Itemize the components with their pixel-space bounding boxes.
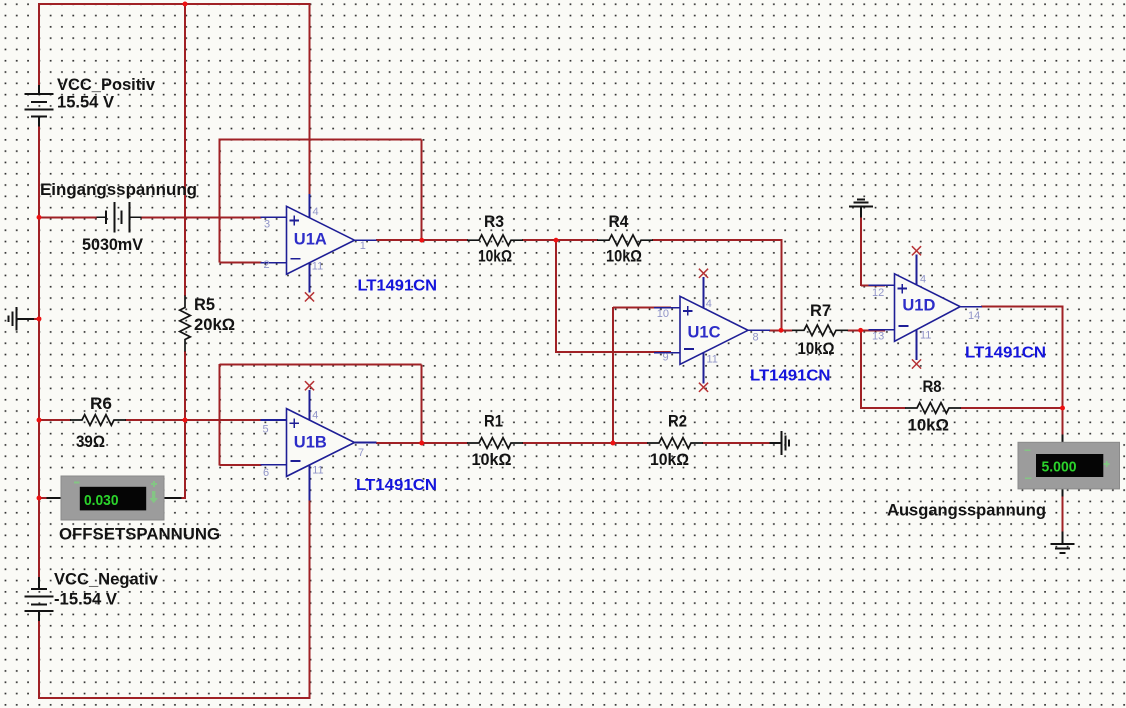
resistor R2 <box>647 412 703 469</box>
svg-text:15.54 V: 15.54 V <box>57 93 115 112</box>
svg-text:U1B: U1B <box>294 434 327 452</box>
svg-text:6: 6 <box>263 467 269 479</box>
svg-text:11: 11 <box>707 354 718 366</box>
svg-text:R5: R5 <box>194 295 215 314</box>
wire U1B pin11 to bottom rail <box>309 500 311 699</box>
op-amp U1C <box>654 277 770 383</box>
svg-text:U1D: U1D <box>902 297 935 315</box>
resistor R3 <box>467 212 523 266</box>
battery Eingangsspannung V2 <box>40 180 197 254</box>
wire U1A output row <box>376 239 468 241</box>
wire U1A loop top <box>220 138 422 140</box>
wire U1A loop right <box>421 139 423 240</box>
svg-text:R4: R4 <box>609 212 629 231</box>
voltmeter Ausgangsspannung display <box>1018 435 1120 497</box>
ground top right stem <box>860 206 862 217</box>
no-connect X at U1D pin 11 <box>912 359 921 368</box>
svg-text:20kΩ: 20kΩ <box>194 315 235 334</box>
wire ground stub row <box>33 318 40 320</box>
battery VCC_Negativ V3 <box>24 570 158 622</box>
svg-text:U1C: U1C <box>688 324 721 342</box>
op-amp U1D <box>869 255 983 361</box>
svg-text:1: 1 <box>360 240 366 252</box>
svg-text:7: 7 <box>358 447 364 459</box>
wire bottom rail <box>38 697 310 699</box>
ground output stem <box>1062 532 1064 544</box>
wire left rail lower <box>38 621 40 699</box>
wire U1B loop to minus pin <box>220 464 262 466</box>
ground top right (inverted) <box>849 199 873 206</box>
svg-text:4: 4 <box>920 274 926 286</box>
svg-text:10kΩ: 10kΩ <box>472 450 512 469</box>
wire R2 to ground <box>702 442 771 444</box>
wire top ground drop <box>860 216 862 286</box>
resistor R5 <box>180 295 235 352</box>
resistor R6 <box>70 394 126 451</box>
svg-text:Ausgangsspannung: Ausgangsspannung <box>887 501 1046 520</box>
wire R8 row left <box>860 407 905 409</box>
svg-text:2: 2 <box>264 259 270 271</box>
svg-text:R7: R7 <box>810 301 831 320</box>
wire node down to R8 row <box>860 330 862 409</box>
resistor R4 <box>597 212 653 266</box>
svg-text:10kΩ: 10kΩ <box>606 247 642 266</box>
svg-text:5: 5 <box>263 424 269 436</box>
svg-text:4: 4 <box>706 298 712 310</box>
ground R2 stub <box>770 442 782 444</box>
svg-text:14: 14 <box>968 310 980 322</box>
svg-text:5030mV: 5030mV <box>82 235 144 254</box>
svg-text:R1: R1 <box>484 412 503 431</box>
svg-text:R8: R8 <box>923 377 942 396</box>
svg-text:10kΩ: 10kΩ <box>650 450 689 469</box>
svg-text:10: 10 <box>657 308 669 320</box>
svg-text:OFFSETSPANNUNG: OFFSETSPANNUNG <box>59 525 220 544</box>
svg-text:8: 8 <box>753 331 759 343</box>
svg-text:11: 11 <box>312 261 323 273</box>
no-connect X at U1D pin 4 <box>912 246 921 255</box>
wire U1A loop to minus pin <box>220 262 262 264</box>
wire left rail upper <box>38 3 40 85</box>
wire display2 to ground <box>1062 490 1064 533</box>
node R3-R4 virtual <box>554 238 559 243</box>
no-connect X at U1C pin 11 <box>699 383 708 392</box>
svg-text:-15.54 V: -15.54 V <box>54 590 118 609</box>
wire display right stub red <box>181 497 186 499</box>
wire to U1C minus <box>556 351 671 353</box>
svg-text:13: 13 <box>872 331 884 343</box>
ground right of R2 <box>781 431 789 455</box>
wire to U1D plus <box>861 284 885 286</box>
svg-text:U1A: U1A <box>294 231 327 249</box>
svg-text:R6: R6 <box>90 394 112 413</box>
svg-text:10kΩ: 10kΩ <box>478 247 512 266</box>
battery VCC_Positiv V1 <box>24 75 155 126</box>
wire U1B loop right <box>421 365 423 443</box>
wire U1C out to R7 <box>769 329 793 331</box>
node U1C output <box>779 328 784 333</box>
node R7 to U1D <box>858 328 863 333</box>
wire input row <box>39 216 97 218</box>
node offset display tap <box>37 496 42 501</box>
ground left of rail <box>9 307 17 331</box>
svg-text:11: 11 <box>920 330 931 342</box>
wire left rail mid <box>38 126 40 577</box>
svg-text:5.000: 5.000 <box>1042 459 1077 476</box>
svg-text:LT1491CN: LT1491CN <box>358 278 438 295</box>
wire R6 to U1B plus <box>125 419 262 421</box>
wire U1A loop left <box>219 139 221 263</box>
voltmeter OFFSETSPANNUNG display <box>47 476 182 520</box>
op-amp U1A <box>261 194 377 292</box>
op-amp U1B <box>261 390 377 501</box>
node U1A output feedback <box>419 238 424 243</box>
wire corner down to U1C out <box>781 240 783 330</box>
resistor R8 <box>905 377 961 435</box>
node U1B output feedback <box>419 441 424 446</box>
ground below output display <box>1051 544 1075 553</box>
no-connect X at U1A pin 11 <box>305 292 314 301</box>
svg-text:12: 12 <box>872 287 884 299</box>
node R6 / display column <box>183 418 188 423</box>
resistor R7 <box>792 301 848 358</box>
svg-text:R2: R2 <box>668 412 687 431</box>
wire R8 row right <box>961 407 1064 409</box>
node R8 output <box>1060 406 1065 411</box>
wire U1B loop left <box>219 364 221 466</box>
no-connect X at U1C pin 4 <box>699 269 708 278</box>
no-connect X at U1B pin 4 <box>305 381 314 390</box>
node top rail R5 junction <box>183 2 188 7</box>
wire rail drop to U1A pin4 <box>309 3 311 194</box>
ground left stub <box>16 318 34 320</box>
svg-text:VCC_Negativ: VCC_Negativ <box>54 570 159 589</box>
wire R1-R2 mid <box>522 442 648 444</box>
svg-text:Eingangsspannung: Eingangsspannung <box>40 180 197 199</box>
node ground tap <box>37 316 42 321</box>
wire display left stub red <box>39 497 48 499</box>
wire input row right <box>141 216 262 218</box>
wire R5 column upper <box>184 3 186 296</box>
wire U1C plus column <box>612 307 614 444</box>
wire U1D output <box>981 306 1063 308</box>
svg-text:R3: R3 <box>484 212 504 231</box>
svg-text:LT1491CN: LT1491CN <box>965 345 1046 362</box>
wire R7 to U1D minus node <box>848 329 886 331</box>
wire U1B output row <box>376 442 468 444</box>
svg-text:4: 4 <box>312 410 318 422</box>
wire output down <box>1062 307 1064 436</box>
svg-text:VCC_Positiv: VCC_Positiv <box>57 75 156 94</box>
wire U1C plus row <box>613 307 671 309</box>
node input row tap <box>37 215 42 220</box>
svg-text:0.030: 0.030 <box>84 492 119 509</box>
wire R3-R4 mid <box>522 239 598 241</box>
node R6 row tap <box>37 418 42 423</box>
svg-text:LT1491CN: LT1491CN <box>356 477 437 494</box>
wire R4 to corner <box>652 239 782 241</box>
svg-text:9: 9 <box>663 352 669 364</box>
svg-text:LT1491CN: LT1491CN <box>750 368 831 385</box>
wire VCC positive top rail <box>39 3 310 5</box>
node R1-R2 virtual <box>610 441 615 446</box>
wire R6 row <box>39 419 71 421</box>
resistor R1 <box>467 412 523 469</box>
svg-text:4: 4 <box>313 206 319 218</box>
svg-text:3: 3 <box>264 219 270 231</box>
svg-text:11: 11 <box>312 465 323 477</box>
svg-text:10kΩ: 10kΩ <box>798 339 835 358</box>
svg-text:10kΩ: 10kΩ <box>908 416 950 435</box>
wire U1B loop top <box>220 364 422 366</box>
wire display column <box>184 420 186 499</box>
wire virtual node down <box>555 240 557 353</box>
wire R5 column lower <box>184 351 186 420</box>
svg-text:39Ω: 39Ω <box>76 432 105 451</box>
